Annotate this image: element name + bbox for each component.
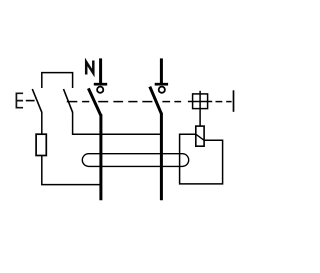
test resistor R xyxy=(36,134,46,155)
latch cross vertical and wire latch to trip coil xyxy=(199,91,201,126)
label N (neutral pole name) xyxy=(86,62,93,73)
test switch blade 1 xyxy=(32,89,42,112)
pole N switch blade xyxy=(88,88,100,115)
linkage end bar xyxy=(233,90,235,112)
pole L lower conductor xyxy=(160,113,163,200)
wire test blade 1 to resistor xyxy=(41,112,43,134)
pole L arrowhead bar xyxy=(155,83,168,86)
test button actuator dash xyxy=(26,100,35,102)
trip coil diagonal xyxy=(196,134,204,140)
terminal circle pole L xyxy=(159,87,165,93)
pole N arrowhead bar xyxy=(94,83,107,86)
wire resistor to pole N junction xyxy=(42,156,101,185)
trip coil relay xyxy=(196,126,204,146)
pole N supply conductor xyxy=(99,58,102,83)
latch mechanism square xyxy=(193,94,208,109)
terminal circle pole N xyxy=(97,87,103,93)
mechanical linkage dashed line xyxy=(67,101,232,103)
test switch bridge bar xyxy=(42,73,73,88)
pole L switch blade xyxy=(150,87,162,114)
test switch blade 2 xyxy=(64,89,73,112)
label E (test button, essai) xyxy=(16,93,22,107)
latch cross horizontal xyxy=(188,101,212,103)
toroid current transformer core xyxy=(82,154,188,167)
pole L supply conductor xyxy=(160,58,163,83)
wire test blade 2 to pole L junction xyxy=(73,112,162,135)
pole N lower conductor xyxy=(99,114,102,200)
secondary circuit loop wire left xyxy=(180,134,223,184)
